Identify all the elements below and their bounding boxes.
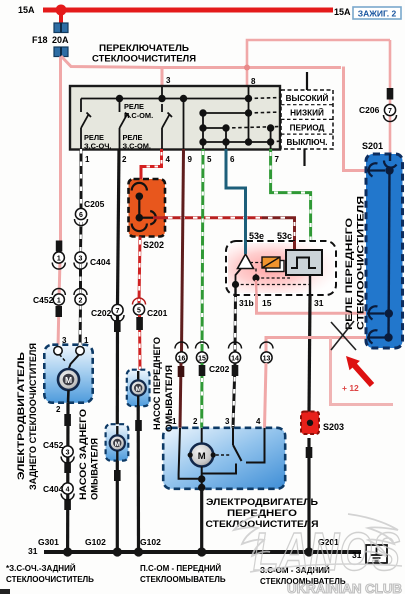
wire: pin7 green/white striped into interval relay (271, 149, 311, 250)
wire: C202-16 maroon to front motor pin 1 (178, 363, 185, 428)
svg-text:S201: S201 (362, 141, 383, 151)
svg-text:9: 9 (188, 155, 193, 164)
switch internals: pin3 feed into rail (161, 87, 163, 99)
svg-text:15A: 15A (334, 7, 351, 17)
wire: pin4 red to S202 (141, 149, 162, 180)
svg-text:14: 14 (231, 356, 239, 363)
wire: pink from C206 into S201 top (389, 99, 392, 158)
svg-text:2: 2 (79, 298, 83, 305)
wire: relay 31b black/white striped down to C202 pin 14 (234, 295, 238, 352)
wire: red drop from rail into fuse F18 (59, 10, 63, 25)
svg-text:НАСОС ЗАДНЕГО: НАСОС ЗАДНЕГО (78, 409, 88, 500)
svg-text:4: 4 (166, 155, 171, 164)
connector C452 pin 3 (rear motor ground) (43, 440, 74, 463)
svg-text:СТЕКЛООМЫВАТЕЛЬ: СТЕКЛООМЫВАТЕЛЬ (140, 575, 226, 584)
svg-text:ПЕРЕКЛЮЧАТЕЛЬ: ПЕРЕКЛЮЧАТЕЛЬ (99, 42, 189, 53)
wire: C202-13 pink to front motor pin 4 (265, 363, 267, 428)
svg-text:16: 16 (178, 356, 186, 363)
rear wiper motor (ЭЛЕКТРОДВИГАТЕЛЬ ЗАДНЕГО СТЕКЛООЧИСТИТЕЛЯ) (44, 345, 92, 403)
svg-text:ВЫКЛЮЧ.: ВЫКЛЮЧ. (286, 138, 327, 147)
wire: S202 down to C201 pin 5 (red/white striped) (139, 237, 140, 304)
connector C404 pins 1 and 3 (52, 252, 110, 269)
svg-text:НАСОС ПЕРЕДНЕГО: НАСОС ПЕРЕДНЕГО (152, 337, 162, 430)
svg-text:2: 2 (56, 405, 61, 414)
wire: front pump ground to rail (137, 406, 141, 553)
svg-text:*З.С-ОЧ.-ЗАДНИЙ: *З.С-ОЧ.-ЗАДНИЙ (6, 564, 76, 573)
switch internals: row B (203, 112, 249, 114)
node: dot where pin-8 wire crosses fuse feed (244, 65, 250, 71)
wire: C202-15 green striped to front motor pin 2 (199, 363, 206, 428)
svg-text:3: 3 (66, 450, 70, 457)
switch: relay contact З.С-ОЧ (pin 1) (81, 99, 91, 150)
svg-text:3: 3 (166, 76, 171, 85)
switch internals: junction dots (116, 95, 274, 146)
svg-text:1: 1 (57, 256, 61, 263)
wire marker below C202-7 (114, 320, 121, 332)
wire: relay 15 pink down then right to S201 middle contact (257, 295, 368, 313)
svg-text:6: 6 (230, 155, 235, 164)
switch S: wiper switch body (70, 86, 280, 150)
watermark: LANOS club (grey) (234, 514, 402, 594)
svg-text:ЭЛЕКТРОДВИГАТЕЛЬ: ЭЛЕКТРОДВИГАТЕЛЬ (16, 351, 26, 480)
label: front pump vertical caption (152, 337, 174, 432)
svg-text:ВЫСОКИЙ: ВЫСОКИЙ (286, 92, 329, 103)
relay internals: junction dots and dashed links (232, 263, 310, 296)
wire: pin2 solid black down to C202 pin 7 then rear washer pump (118, 149, 120, 304)
svg-text:3: 3 (62, 336, 67, 345)
svg-text:5: 5 (137, 308, 141, 315)
connector C452 pins 1 and 2 (33, 289, 87, 306)
wire: S203 to ground rail (307, 438, 310, 553)
svg-text:G102: G102 (140, 537, 161, 547)
svg-text:UKRAINIAN CLUB: UKRAINIAN CLUB (287, 581, 402, 594)
svg-text:СТЕКЛООЧИСТИТЕЛЬ: СТЕКЛООЧИСТИТЕЛЬ (6, 575, 94, 584)
svg-text:З.С-ОЧ.: З.С-ОЧ. (84, 142, 111, 151)
svg-text:4: 4 (256, 417, 261, 426)
wire: pink drop into switch pin 3 (161, 68, 164, 88)
switch: relay contact З.С-ОМ (pin 2) (120, 99, 130, 150)
svg-text:НИЗКИЙ: НИЗКИЙ (290, 107, 324, 118)
wire: pink from ignition bridge down to C206 (389, 40, 392, 89)
svg-text:+ 12: + 12 (342, 383, 359, 393)
switch internals: row C (203, 127, 226, 129)
wire: pink bridge from ignition area down to switch pin 8 (247, 40, 390, 86)
svg-text:ЗАЖИГ. 2: ЗАЖИГ. 2 (358, 9, 397, 19)
connector C404 pin 4 (rear motor ground) (43, 483, 74, 500)
annotation: hand-drawn X over pink wire (331, 321, 356, 350)
svg-text:15: 15 (262, 298, 272, 308)
svg-text:31: 31 (28, 546, 38, 556)
wire: pin9 maroon down to C202 pin 16 (182, 149, 184, 352)
svg-text:M: M (198, 451, 206, 462)
wire: black stub below position-label box (303, 149, 305, 167)
wire: battery feed rail 15A (thick red, top) (43, 5, 333, 26)
wire: pink feed from fuse down left side to rear wiper motor pin 3 (58, 57, 61, 349)
switch internals: top rail (row A) (81, 86, 271, 149)
label: rear motor vertical caption (16, 343, 38, 490)
wire: rear motor ground black with markers (66, 403, 70, 553)
front washer pump (НАСОС ПЕРЕДНЕГО ОМЫВАТЕЛЯ) (127, 370, 150, 406)
switch internals: column pin5 (202, 113, 204, 149)
switch: relay contact П.С-ОМ (pin 4) (162, 104, 172, 149)
svg-text:C202: C202 (91, 308, 112, 318)
wire: front motor ground to rail (200, 489, 203, 553)
svg-text:F18: F18 (32, 35, 48, 45)
svg-text:S202: S202 (143, 240, 164, 250)
fuse F18 20A (54, 23, 68, 57)
svg-text:1: 1 (57, 298, 61, 305)
svg-text:C201: C201 (147, 308, 168, 318)
svg-text:1: 1 (84, 336, 89, 345)
relay internals: armature triangle (236, 241, 254, 284)
connector C206 pin 7 (359, 88, 397, 122)
ground rail 31 (44, 547, 361, 556)
label: rear pump vertical caption (78, 409, 100, 500)
svg-text:7: 7 (275, 155, 280, 164)
switch internals: column pin8 (248, 86, 250, 142)
relay internals: timer box with pulse symbol (286, 241, 322, 275)
wire: rear pump ground to rail (116, 461, 119, 553)
wire: pink C202-13 up and right to S201 lower contact (266, 338, 367, 353)
connector C202 pin 7 (91, 304, 124, 321)
interval relay (front wiper relay) dashed box with red glow (226, 241, 336, 295)
svg-text:2: 2 (122, 155, 127, 164)
svg-text:П.С-ОМ.: П.С-ОМ. (124, 111, 153, 120)
svg-text:15: 15 (198, 356, 206, 363)
wire: pink branch dead-end (to washer annotation corner) (331, 338, 394, 405)
svg-text:7: 7 (388, 108, 392, 115)
svg-text:53c: 53c (277, 231, 292, 241)
label: front wiper relay vertical caption (344, 196, 366, 330)
wire: pink right-side drop to S201 upper contact (344, 67, 368, 171)
svg-text:C452: C452 (43, 440, 64, 450)
svg-text:4: 4 (66, 487, 70, 494)
svg-text:M: M (65, 375, 72, 385)
wire: pin1 black/white striped down to rear motor pin 1 (80, 149, 81, 348)
svg-text:5: 5 (207, 155, 212, 164)
svg-text:1: 1 (85, 155, 90, 164)
svg-text:S203: S203 (323, 422, 344, 432)
wire: pink feed branch from fuse to the right (to switch pin 3 and S201) (61, 56, 341, 68)
switch position label box ВЫСОКИЙ/НИЗКИЙ/ПЕРИОД/ВЫКЛЮЧ. (281, 90, 333, 149)
svg-text:ПЕРИОД: ПЕРИОД (290, 123, 325, 132)
ground symbol box at right (366, 545, 387, 563)
svg-text:15A: 15A (18, 5, 35, 15)
relay internals: resistor (orange, slashed) (262, 257, 284, 272)
switch internals: column pin6 (225, 128, 227, 149)
svg-text:C202: C202 (209, 364, 230, 374)
switch internals: column pin7 (270, 128, 272, 149)
switch internals: row D (203, 141, 271, 143)
svg-text:3: 3 (225, 417, 230, 426)
svg-text:8: 8 (251, 77, 256, 86)
rear washer pump (НАСОС ЗАДНЕГО ОМЫВАТЕЛЯ) (106, 424, 129, 460)
wire: S202 to relay pin 53c (dark red / white striped) (153, 218, 295, 241)
svg-text:13: 13 (263, 356, 271, 363)
svg-text:ЭЛЕКТРОДВИГАТЕЛЬ: ЭЛЕКТРОДВИГАТЕЛЬ (206, 497, 318, 508)
svg-text:M: M (135, 386, 140, 393)
svg-text:ЗАДНЕГО СТЕКЛООЧИСТИТЕЛЯ: ЗАДНЕГО СТЕКЛООЧИСТИТЕЛЯ (28, 343, 38, 490)
svg-text:G301: G301 (38, 537, 59, 547)
svg-text:C452: C452 (33, 295, 54, 305)
wire: black from C202-7 down into rear washer pump (116, 316, 119, 426)
annotation: red arrow pointing to X (346, 356, 374, 387)
svg-text:СТЕКЛООЧИСТИТЕЛЯ: СТЕКЛООЧИСТИТЕЛЯ (356, 196, 366, 330)
front motor park switch (232, 428, 234, 445)
svg-text:C205: C205 (84, 199, 105, 209)
wire: C202-14 black/white striped to front motor pin 3 (232, 363, 239, 428)
svg-text:20A: 20A (52, 35, 69, 45)
wire: pin6 teal down and into relay pin 53e (226, 149, 246, 241)
wire: relay 31 black down through S203 to ground (309, 295, 310, 414)
svg-text:C206: C206 (359, 105, 380, 115)
relay S202 (rear washer relay, orange) (129, 179, 166, 237)
svg-text:ОМЫВАТЕЛЯ: ОМЫВАТЕЛЯ (164, 365, 174, 432)
front wiper motor (ЭЛЕКТРОДВИГАТЕЛЬ ПЕРЕДНЕГО СТЕКЛООЧИСТИТЕЛЯ) (163, 428, 285, 491)
scan corner mark bottom-left (0, 589, 10, 594)
node: junction on 15A rail above fuse F18 (56, 5, 67, 16)
svg-text:3: 3 (79, 256, 83, 263)
svg-text:31b: 31b (239, 298, 254, 308)
svg-text:31: 31 (314, 298, 324, 308)
connector C201 pin 5 (133, 298, 168, 318)
wire marker on pink feed (56, 241, 63, 252)
label: ignition source box ЗАЖИГ. 2 (353, 7, 401, 19)
svg-text:2: 2 (193, 417, 198, 426)
connector C202 row pins 16 15 14 13 (175, 342, 273, 374)
svg-text:53e: 53e (249, 231, 264, 241)
wire: black stub above position-label box (306, 72, 308, 90)
svg-text:РЕЛЕ ПЕРЕДНЕГО: РЕЛЕ ПЕРЕДНЕГО (344, 218, 354, 330)
switch internals: column pin9 (183, 99, 185, 150)
svg-text:СТЕКЛООЧИСТИТЕЛЯ: СТЕКЛООЧИСТИТЕЛЯ (92, 53, 196, 64)
connector C205 pin 6 (75, 199, 105, 226)
wire: pin5 green/white striped down to C202 pin 15 (202, 149, 203, 352)
svg-text:G102: G102 (85, 537, 106, 547)
switch internals: dashed rows into position labels (226, 98, 281, 143)
svg-text:З.С-ОМ.: З.С-ОМ. (123, 142, 151, 151)
svg-text:П.С-ОМ - ПЕРЕДНИЙ: П.С-ОМ - ПЕРЕДНИЙ (140, 564, 221, 573)
svg-text:C404: C404 (90, 257, 111, 267)
svg-text:C404: C404 (43, 484, 64, 494)
relay S201 (front wiper relay, blue) (366, 154, 403, 348)
svg-text:6: 6 (79, 212, 83, 219)
breaker S203 (red) on relay-31 ground wire (301, 412, 319, 435)
svg-text:M: M (115, 441, 120, 448)
svg-text:ПЕРЕДНЕГО: ПЕРЕДНЕГО (227, 508, 298, 519)
wire marker on pink feed below C452 (56, 306, 63, 317)
wire: C201-5 down to front washer pump (red/white striped) (136, 315, 143, 371)
svg-text:РЕЛЕ: РЕЛЕ (124, 102, 144, 111)
svg-text:7: 7 (116, 308, 120, 315)
svg-text:ОМЫВАТЕЛЯ: ОМЫВАТЕЛЯ (90, 438, 100, 500)
